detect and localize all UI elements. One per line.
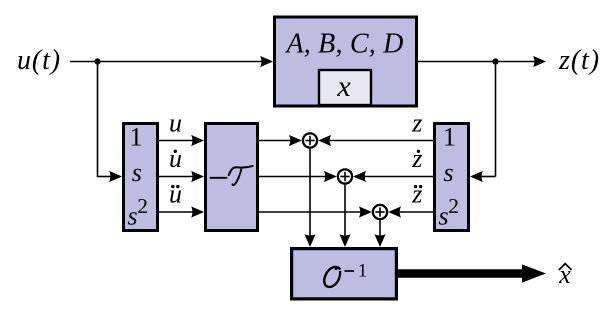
svg-text:1: 1	[358, 261, 368, 282]
svg-text:z: z	[411, 180, 422, 209]
svg-text:s: s	[132, 158, 142, 187]
svg-text:1: 1	[130, 123, 143, 152]
svg-text:z: z	[411, 144, 422, 173]
svg-text:u: u	[169, 109, 182, 138]
svg-text:u: u	[169, 180, 182, 209]
svg-text:s: s	[438, 202, 448, 231]
svg-text:2: 2	[137, 194, 148, 218]
svg-text:1: 1	[443, 123, 456, 152]
svg-text:u(t): u(t)	[17, 45, 61, 76]
svg-text:x: x	[336, 70, 351, 103]
svg-text:u: u	[169, 144, 182, 173]
svg-text:z: z	[411, 109, 422, 138]
svg-text:z(t): z(t)	[558, 45, 600, 76]
svg-text:s: s	[444, 158, 454, 187]
svg-text:2: 2	[448, 194, 459, 218]
svg-text:s: s	[127, 202, 137, 231]
svg-text:A, B, C, D: A, B, C, D	[284, 29, 403, 60]
